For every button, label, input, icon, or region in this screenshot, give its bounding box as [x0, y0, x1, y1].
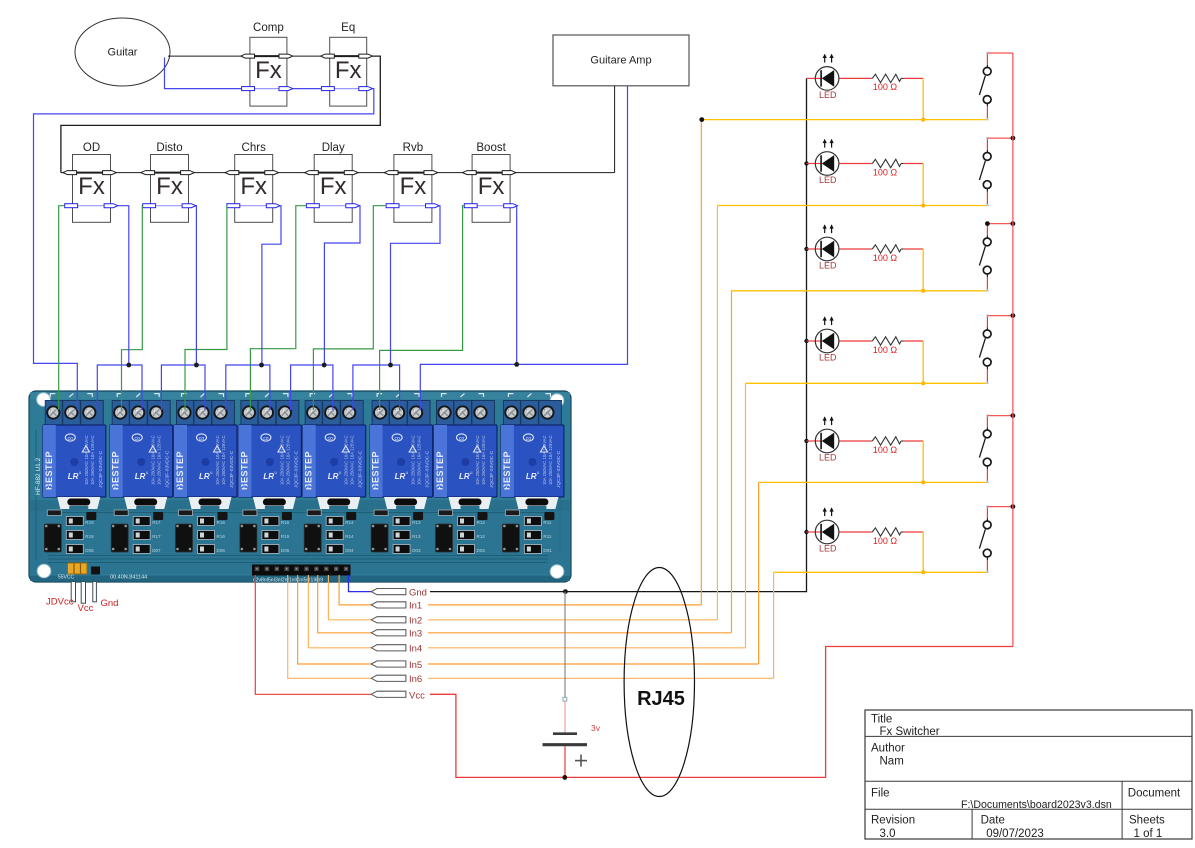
- net pin In4: [371, 644, 422, 655]
- svg-text:D03: D03: [412, 548, 421, 553]
- fx pedal block Rvb: [384, 142, 439, 222]
- junction: Dlay return node: [322, 363, 327, 368]
- svg-text:100 Ω: 100 Ω: [873, 536, 898, 546]
- fx pedal block Chrs: [225, 142, 280, 222]
- wire: In1 riser from pin line (orange): [700, 120, 702, 605]
- wire: switch S2 to Vcc bus (red): [987, 137, 1013, 139]
- wire: In1 pin line to riser (orange): [428, 604, 701, 606]
- wire: guitar to Comp input: [168, 55, 242, 57]
- resistor R5 100 ohm: [872, 437, 923, 455]
- wire: In2 riser from pin line (orange): [716, 206, 718, 620]
- svg-text:LR: LR: [395, 472, 406, 481]
- svg-text:55VCC: 55VCC: [58, 575, 75, 581]
- wire: header pin to In3 lug (orange): [318, 575, 372, 633]
- fx block Eq: [321, 22, 373, 106]
- wire: header pin to Gnd lug (blue): [349, 575, 372, 592]
- junction: S6 on Vcc bus: [1011, 504, 1016, 509]
- svg-text:R17: R17: [152, 534, 161, 539]
- svg-text:In6: In6: [409, 674, 422, 685]
- svg-text:LR: LR: [135, 472, 146, 481]
- wire: In4 rail (yellow): [746, 382, 988, 384]
- junction: rail In2 / resistor: [921, 204, 925, 208]
- svg-text:3v: 3v: [591, 723, 601, 733]
- resistor R1 100 ohm: [872, 74, 923, 92]
- wire: guitar return (blue) through Comp/Eq: [34, 58, 374, 411]
- svg-text:R14: R14: [345, 534, 354, 539]
- wire: Disto send (green) to relay 2: [122, 206, 143, 410]
- guitar amp block: [553, 35, 689, 86]
- wire: Comp to Eq: [293, 55, 321, 57]
- svg-text:co: co: [394, 436, 400, 442]
- title block: [865, 710, 1192, 840]
- resistor R6 100 ohm: [872, 528, 923, 546]
- svg-text:Gnd: Gnd: [409, 588, 427, 599]
- wire: R4 drop to In4 rail (yellow): [922, 341, 924, 383]
- wire: In3 rail (yellow): [732, 290, 988, 292]
- svg-text:Dlay: Dlay: [322, 142, 345, 154]
- wire: R1 drop to In1 rail (yellow): [922, 78, 924, 119]
- power jumper JDVcc and pins: [68, 563, 101, 603]
- svg-text:HF-882 U1.2: HF-882 U1.2: [35, 457, 42, 495]
- svg-text:10A 250VAC 10A 125VAC: 10A 250VAC 10A 125VAC: [285, 435, 290, 485]
- wire: In6 rail (yellow): [774, 571, 988, 573]
- svg-text:D02: D02: [477, 548, 486, 553]
- svg-text:Boost: Boost: [476, 142, 506, 154]
- svg-text:JQC3F-03VDC-C: JQC3F-03VDC-C: [489, 450, 495, 488]
- svg-text:10A 250VAC 10A 125VAC: 10A 250VAC 10A 125VAC: [84, 435, 89, 485]
- relay channel K4: screw terminal block, relay, driver parts: [238, 393, 301, 553]
- svg-text:co: co: [526, 436, 532, 442]
- svg-text:R13: R13: [412, 534, 421, 539]
- LED D6: [807, 507, 873, 553]
- net pin In5: [371, 660, 422, 671]
- svg-text:Title: Title: [871, 713, 892, 725]
- svg-text:R13: R13: [412, 520, 421, 525]
- svg-text:LED: LED: [819, 175, 837, 185]
- svg-text:BESTEP: BESTEP: [502, 451, 512, 490]
- switch S1: [979, 52, 991, 121]
- wire: header pin to In6 lug (orange): [288, 575, 372, 678]
- svg-text:File: File: [871, 788, 890, 800]
- svg-text:Author: Author: [871, 742, 905, 754]
- svg-text:10A 250VAC 10A 125VAC: 10A 250VAC 10A 125VAC: [90, 435, 95, 485]
- wire: Eq output down-left to OD input: [61, 56, 380, 173]
- net pin Gnd: [371, 588, 427, 599]
- svg-text:LR: LR: [68, 472, 79, 481]
- svg-text:Fx: Fx: [320, 173, 347, 200]
- svg-text:10A 250VAC 10A 125VAC: 10A 250VAC 10A 125VAC: [411, 435, 416, 485]
- junction: LED D4 cathode on Gnd bus: [804, 339, 808, 343]
- wire: In5 pin line to riser (orange): [428, 663, 759, 665]
- svg-text:co: co: [328, 436, 334, 442]
- svg-text:Vcc: Vcc: [78, 603, 94, 614]
- svg-text:BESTEP: BESTEP: [435, 451, 445, 490]
- wire: header pin to In5 lug (orange): [298, 575, 372, 664]
- wire: Gnd net to LED cathodes (black): [430, 78, 807, 591]
- wire: R6 drop to In6 rail (yellow): [922, 532, 924, 572]
- svg-text:100 Ω: 100 Ω: [873, 167, 898, 177]
- switch S2: [979, 137, 991, 206]
- junction: S3 lead corner: [985, 221, 990, 226]
- junction: LED D5 cathode on Gnd bus: [804, 439, 808, 443]
- svg-text:Chrs: Chrs: [242, 142, 267, 154]
- wire: Boost send (green) to relay 6: [380, 206, 465, 410]
- svg-text:BESTEP: BESTEP: [111, 451, 121, 490]
- wire: header pin to In2 lug (orange): [328, 575, 371, 620]
- wire: In6 riser from pin line (orange): [773, 572, 775, 678]
- svg-text:LR: LR: [459, 472, 470, 481]
- junction: S3 on Vcc bus: [1011, 221, 1016, 226]
- junction: rail In6 / resistor: [921, 570, 925, 574]
- svg-text:R12: R12: [477, 534, 486, 539]
- net pin In1: [371, 601, 422, 612]
- main signal line through pedal row: [61, 172, 615, 174]
- svg-text:10A 250VAC 10A 125VAC: 10A 250VAC 10A 125VAC: [279, 435, 284, 485]
- svg-text:RJ45: RJ45: [637, 688, 685, 710]
- svg-text:Gnd: Gnd: [101, 598, 119, 609]
- junction: LED D3 cathode on Gnd bus: [804, 247, 808, 251]
- wire: In3 riser from pin line (orange): [731, 291, 733, 633]
- svg-text:R16: R16: [217, 520, 226, 525]
- svg-text:100 Ω: 100 Ω: [873, 253, 898, 263]
- svg-text:BESTEP: BESTEP: [175, 451, 185, 490]
- svg-text:F:\Documents\board2023v3.dsn: F:\Documents\board2023v3.dsn: [961, 799, 1112, 811]
- svg-text:D07: D07: [152, 548, 161, 553]
- svg-text:LR: LR: [263, 472, 274, 481]
- svg-text:100 Ω: 100 Ω: [873, 345, 898, 355]
- wire: header pin to In4 lug (orange): [308, 575, 371, 648]
- svg-text:Fx: Fx: [478, 173, 505, 200]
- fx pedal block OD: [63, 142, 118, 222]
- svg-text:R11: R11: [543, 520, 552, 525]
- svg-text:In2: In2: [409, 616, 422, 627]
- svg-text:Comp: Comp: [253, 22, 284, 34]
- svg-text:LR: LR: [199, 472, 210, 481]
- svg-text:co: co: [459, 436, 465, 442]
- svg-text:co: co: [135, 436, 141, 442]
- svg-text:co: co: [68, 436, 74, 442]
- svg-text:JQC3F-03VDC-C: JQC3F-03VDC-C: [98, 450, 104, 488]
- LED D3: [807, 224, 873, 270]
- svg-text:co: co: [263, 436, 269, 442]
- svg-text:10A 250VAC 10A 125VAC: 10A 250VAC 10A 125VAC: [542, 435, 547, 485]
- svg-text:JDVcc: JDVcc: [46, 597, 74, 608]
- svg-text:D04: D04: [345, 548, 354, 553]
- junction: Disto return node: [194, 363, 199, 368]
- svg-text:LED: LED: [819, 544, 837, 554]
- wire: In1 rail (yellow): [701, 119, 987, 121]
- svg-text:Revision: Revision: [871, 814, 915, 826]
- junction: Chrs return node: [259, 363, 264, 368]
- svg-text:Sheets: Sheets: [1129, 814, 1165, 826]
- svg-text:10A 250VAC 10A 125VAC: 10A 250VAC 10A 125VAC: [481, 435, 486, 485]
- net pin Vcc: [371, 690, 425, 701]
- wire: In5 riser from pin line (orange): [758, 482, 760, 664]
- relay module board (8-channel BESTEP relay PCB): [29, 391, 571, 582]
- svg-text:LED: LED: [819, 353, 837, 363]
- svg-text:R18: R18: [85, 520, 94, 525]
- switch S3: [979, 222, 991, 291]
- wire: Disto return (blue): [195, 206, 198, 365]
- wire: Gnd tap to battery (gray): [564, 592, 566, 698]
- fx pedal block Boost: [463, 142, 518, 222]
- wire: switch S6 to Vcc bus (red): [987, 506, 1013, 508]
- svg-text:Fx: Fx: [156, 173, 183, 200]
- svg-text:R15: R15: [281, 520, 290, 525]
- svg-text:JQC3F-03VDC-C: JQC3F-03VDC-C: [165, 450, 171, 488]
- svg-text:In5: In5: [409, 660, 422, 671]
- wire: Vcc bus return to battery + (red): [430, 647, 1013, 778]
- relay channel K5: screw terminal block, relay, driver parts: [303, 393, 366, 553]
- wire: In4 riser from pin line (orange): [745, 383, 747, 648]
- svg-text:D08: D08: [85, 548, 94, 553]
- wire: Rvb return (blue): [391, 206, 441, 365]
- svg-text:JQC3F-03VDC-C: JQC3F-03VDC-C: [425, 450, 431, 488]
- board silkscreen texts: [35, 457, 323, 583]
- relay channel K8: screw terminal block, relay, driver parts: [501, 393, 564, 553]
- resistor R2 100 ohm: [872, 159, 923, 177]
- junction: OD return node: [126, 363, 131, 368]
- node: unconnected marker above battery: [563, 697, 567, 701]
- switch S4: [979, 314, 991, 384]
- svg-text:10A 250VAC 10A 125VAC: 10A 250VAC 10A 125VAC: [548, 435, 553, 485]
- LED D5: [807, 416, 873, 462]
- junction: S5 on Vcc bus: [1011, 413, 1016, 418]
- wire: In2 rail (yellow): [717, 205, 987, 207]
- svg-text:10A 250VAC 10A 125VAC: 10A 250VAC 10A 125VAC: [417, 435, 422, 485]
- svg-text:Fx Switcher: Fx Switcher: [880, 726, 940, 738]
- svg-text:Document: Document: [1128, 788, 1181, 800]
- switch S6: [979, 505, 991, 573]
- wire: R2 drop to In2 rail (yellow): [922, 164, 924, 206]
- wire: Boost return (blue): [516, 206, 519, 365]
- svg-text:100 Ω: 100 Ω: [873, 82, 898, 92]
- svg-text:LED: LED: [819, 453, 837, 463]
- svg-text:In1: In1: [409, 601, 422, 612]
- svg-text:Nam: Nam: [880, 755, 904, 767]
- wire: OD return (blue): [118, 206, 129, 365]
- svg-text:LED: LED: [819, 261, 837, 271]
- svg-text:10A 250VAC 10A 125VAC: 10A 250VAC 10A 125VAC: [475, 435, 480, 485]
- wire: In2 pin line to riser (orange): [428, 619, 717, 621]
- svg-text:Fx: Fx: [240, 173, 267, 200]
- junction: battery on red bus: [562, 775, 567, 780]
- wire: Boost output up to amp (black): [614, 86, 616, 173]
- switch S5: [979, 414, 991, 483]
- junction: Rvb return node: [388, 363, 393, 368]
- svg-text:R18: R18: [85, 534, 94, 539]
- wire: Dlay return (blue): [324, 206, 360, 365]
- junction: S4 on Vcc bus: [1011, 313, 1016, 318]
- wire: Dlay send (green) to relay 4: [250, 206, 306, 410]
- svg-text:JQC3F-03VDC-C: JQC3F-03VDC-C: [229, 450, 235, 488]
- svg-text:R17: R17: [152, 520, 161, 525]
- svg-text:LR: LR: [328, 472, 339, 481]
- resistor R4 100 ohm: [872, 337, 923, 355]
- svg-text:R11: R11: [543, 534, 552, 539]
- net pin In6: [371, 674, 422, 685]
- svg-text:3.0: 3.0: [880, 828, 896, 840]
- wire: switch S3 to Vcc bus (red): [987, 223, 1013, 225]
- svg-text:Eq: Eq: [341, 22, 355, 34]
- relay channel K3: screw terminal block, relay, driver parts: [174, 393, 237, 553]
- relay channel K6: screw terminal block, relay, driver parts: [370, 393, 433, 553]
- junction: S2 on Vcc bus: [1011, 136, 1016, 141]
- fx pedal block Dlay: [305, 142, 360, 222]
- svg-text:R14: R14: [345, 520, 354, 525]
- fx block Comp: [241, 22, 293, 106]
- svg-text:BESTEP: BESTEP: [371, 451, 381, 490]
- svg-text:LR: LR: [526, 472, 537, 481]
- fx pedal block Disto: [141, 142, 196, 222]
- junction: battery tap on Gnd: [563, 589, 568, 594]
- net pin In3: [371, 629, 422, 640]
- svg-text:Guitar: Guitar: [108, 47, 138, 59]
- junction: Boost return node: [514, 362, 519, 367]
- junction: rail In5 / resistor: [921, 480, 925, 484]
- net pin In2: [371, 616, 422, 627]
- svg-text:OD: OD: [83, 142, 100, 154]
- wire: R5 drop to In5 rail (yellow): [922, 441, 924, 482]
- svg-text:1 of 1: 1 of 1: [1134, 828, 1163, 840]
- svg-text:09/07/2023: 09/07/2023: [986, 828, 1044, 840]
- svg-text:D01: D01: [543, 548, 552, 553]
- wire: In4 pin line to riser (orange): [428, 647, 746, 649]
- wire: In3 pin line to riser (orange): [428, 632, 732, 634]
- wire: In6 pin line to riser (orange): [428, 677, 774, 679]
- wire: Chrs return (blue): [262, 206, 281, 365]
- LED D1: [807, 54, 873, 100]
- svg-text:100 Ω: 100 Ω: [873, 445, 898, 455]
- wire: header pin to Vcc lug (red): [255, 575, 371, 694]
- svg-text:10A 250VAC 10A 125VAC: 10A 250VAC 10A 125VAC: [151, 435, 156, 485]
- svg-text:In4: In4: [409, 644, 422, 655]
- svg-text:Fx: Fx: [400, 173, 427, 200]
- wire: Chrs send (green) to relay 3: [185, 206, 227, 410]
- svg-text:10A 250VAC 10A 125VAC: 10A 250VAC 10A 125VAC: [350, 435, 355, 485]
- wire: battery + to bottom red bus: [564, 746, 566, 777]
- svg-text:JQC3F-03VDC-C: JQC3F-03VDC-C: [358, 450, 364, 488]
- LED D2: [807, 139, 873, 185]
- wire: amp return (blue) down to relay 6: [517, 86, 628, 365]
- svg-text:10A 250VAC 10A 125VAC: 10A 250VAC 10A 125VAC: [215, 435, 220, 485]
- wire: Rvb send (green) to relay 5: [313, 206, 386, 410]
- junction: rail In3 / resistor: [921, 289, 925, 293]
- relay channel K1: screw terminal block, relay, driver parts: [43, 393, 106, 553]
- svg-text:R12: R12: [477, 520, 486, 525]
- junction: In1 rail to riser: [699, 117, 704, 122]
- svg-text:In3: In3: [409, 629, 422, 640]
- board pin header J1 (10 pins): [252, 565, 351, 576]
- svg-text:Guitare Amp: Guitare Amp: [590, 55, 651, 67]
- wire: header pin to In1 lug (orange): [339, 575, 371, 605]
- svg-text:Rvb: Rvb: [403, 142, 423, 154]
- battery BT1 3v: [543, 701, 601, 767]
- svg-text:00.40N.841144: 00.40N.841144: [110, 575, 147, 581]
- svg-text:Date: Date: [981, 814, 1005, 826]
- svg-text:LED: LED: [819, 90, 837, 100]
- junction: rail In1 / resistor: [921, 118, 925, 122]
- svg-text:10A 250VAC 10A 125VAC: 10A 250VAC 10A 125VAC: [221, 435, 226, 485]
- svg-text:JQC3F-03VDC-C: JQC3F-03VDC-C: [556, 450, 562, 488]
- svg-text:co: co: [199, 436, 205, 442]
- svg-text:BESTEP: BESTEP: [239, 451, 249, 490]
- junction: LED D2 cathode on Gnd bus: [804, 161, 808, 165]
- svg-text:R16: R16: [217, 534, 226, 539]
- svg-text:Fx: Fx: [255, 57, 282, 84]
- svg-text:Vcc: Vcc: [409, 690, 425, 701]
- svg-text:Fx: Fx: [78, 173, 105, 200]
- wire: Vcc bus vertical (red): [1012, 53, 1014, 647]
- relay channel K2: screw terminal block, relay, driver parts: [110, 393, 173, 553]
- resistor R3 100 ohm: [872, 245, 923, 263]
- svg-text:BESTEP: BESTEP: [304, 451, 314, 490]
- relay channel K7: screw terminal block, relay, driver parts: [434, 393, 497, 553]
- guitar source: [75, 18, 170, 86]
- wire: In5 rail (yellow): [759, 481, 988, 483]
- junction: rail In4 / resistor: [921, 381, 925, 385]
- svg-text:10A 250VAC 10A 125VAC: 10A 250VAC 10A 125VAC: [344, 435, 349, 485]
- svg-text:BESTEP: BESTEP: [44, 451, 54, 490]
- svg-text:D05: D05: [281, 548, 290, 553]
- svg-text:10A 250VAC 10A 125VAC: 10A 250VAC 10A 125VAC: [157, 435, 162, 485]
- svg-text:D06: D06: [217, 548, 226, 553]
- svg-text:JQC3F-03VDC-C: JQC3F-03VDC-C: [293, 450, 299, 488]
- wire: switch S5 to Vcc bus (red): [987, 415, 1013, 417]
- wire: R3 drop to In3 rail (yellow): [922, 249, 924, 291]
- wire: OD send (green) to relay 1: [59, 206, 65, 410]
- wire: switch S4 to Vcc bus (red): [987, 315, 1013, 317]
- wire: switch S1 to Vcc bus (red): [987, 52, 1013, 54]
- svg-text:Fx: Fx: [335, 57, 362, 84]
- svg-text:Disto: Disto: [156, 142, 182, 154]
- junction: LED D6 cathode on Gnd bus: [804, 530, 808, 534]
- LED D4: [807, 316, 873, 362]
- svg-text:R15: R15: [281, 534, 290, 539]
- connector RJ45 (cable bundle): [624, 568, 694, 797]
